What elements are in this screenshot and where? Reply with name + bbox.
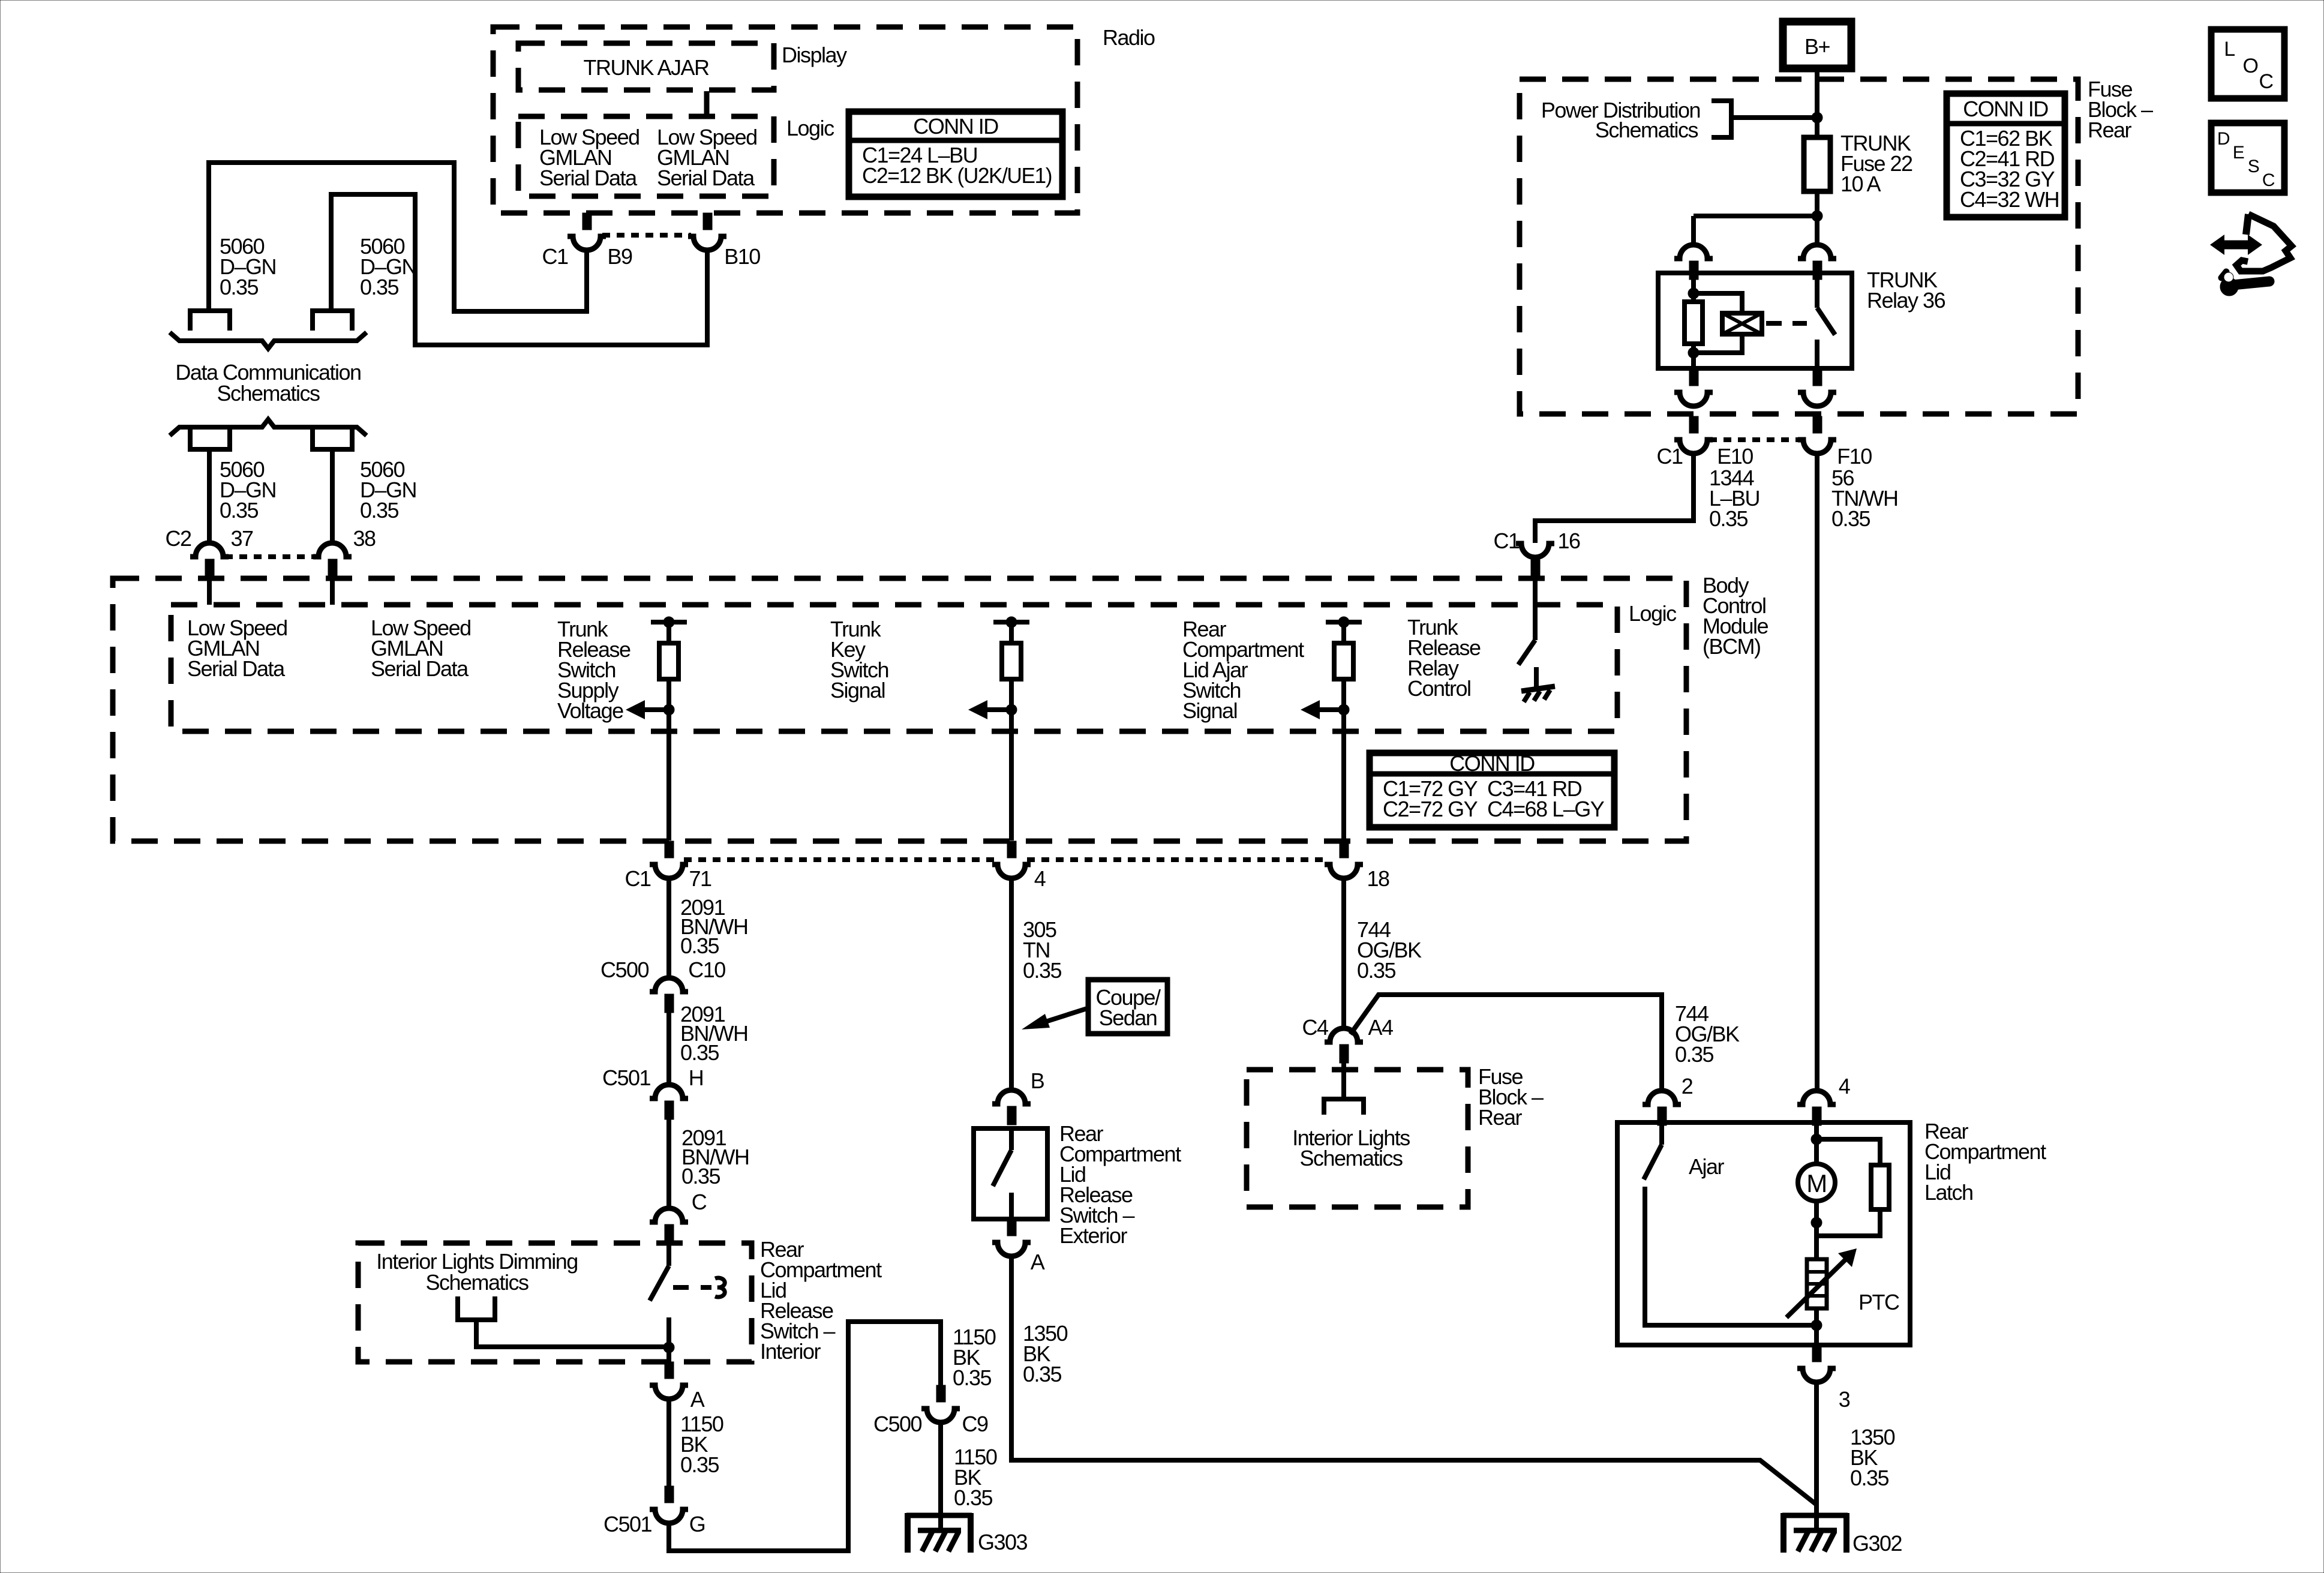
svg-text:0.35: 0.35	[1831, 506, 1870, 531]
conn id table (radio)	[849, 112, 1062, 197]
svg-text:S: S	[2248, 157, 2259, 176]
wire lower-left ref to C2/37	[207, 449, 212, 543]
svg-text:L: L	[2224, 38, 2235, 61]
svg-text:C: C	[2262, 170, 2275, 190]
svg-text:71: 71	[689, 866, 711, 891]
switch blade (BCM relay control)	[1518, 640, 1535, 665]
svg-text:Schematics: Schematics	[1595, 118, 1698, 142]
ajar switch in latch	[1659, 1122, 1664, 1145]
svg-text:Exterior: Exterior	[1059, 1223, 1128, 1248]
wire G to C500-C9	[669, 1322, 941, 1551]
svg-text:TRUNK AJAR: TRUNK AJAR	[583, 55, 709, 80]
connector C1-71 (BCM bottom)	[665, 841, 674, 858]
svg-text:C1: C1	[624, 866, 650, 891]
svg-text:G302: G302	[1852, 1531, 1902, 1556]
radio box	[493, 27, 1077, 213]
wire 37 into BCM	[207, 578, 212, 605]
svg-text:0.35: 0.35	[360, 498, 399, 523]
conn id table (fuse block)	[1947, 94, 2065, 217]
svg-text:Display: Display	[782, 43, 847, 67]
svg-text:Serial Data: Serial Data	[539, 166, 638, 190]
svg-text:Ajar: Ajar	[1689, 1154, 1725, 1179]
svg-text:Control: Control	[1407, 676, 1471, 701]
svg-text:B+: B+	[1804, 34, 1830, 59]
svg-text:Radio: Radio	[1103, 25, 1155, 50]
svg-text:0.35: 0.35	[680, 1040, 719, 1065]
off-page ref (lower right)	[313, 430, 352, 449]
svg-text:C2=72 GY C4=68 L–GY: C2=72 GY C4=68 L–GY	[1383, 797, 1605, 821]
svg-text:4: 4	[1034, 866, 1046, 891]
connector 3 (latch)	[1812, 1345, 1821, 1362]
connector C4-A4	[1325, 1028, 1363, 1042]
connector C500-C10	[650, 978, 688, 992]
wire 2091 BN/WH segment 1	[666, 879, 671, 978]
connector C1-B9 (radio)	[582, 213, 591, 230]
wire 744 OG/BK	[1341, 879, 1346, 1028]
connector 4 (latch)	[1797, 1091, 1836, 1104]
svg-text:Relay 36: Relay 36	[1867, 288, 1945, 313]
svg-text:16: 16	[1557, 529, 1580, 553]
connector 38 (BCM)	[313, 543, 352, 557]
branch to latch pin 2	[1350, 995, 1662, 1091]
connector 4 (BCM bottom)	[1007, 841, 1016, 858]
svg-text:2: 2	[1682, 1074, 1693, 1098]
wire fuse to relay	[1815, 191, 1819, 245]
wire lower-right ref to 38	[330, 449, 335, 543]
svg-text:C9: C9	[962, 1412, 987, 1436]
svg-text:0.35: 0.35	[220, 275, 259, 299]
wire 1350 BK to G302	[1011, 1257, 1816, 1505]
connector 2 (latch)	[1643, 1091, 1681, 1104]
relay TRUNK Relay 36	[1658, 273, 1852, 368]
conn id table (BCM)	[1370, 753, 1614, 827]
relay bottom pins	[1689, 368, 1698, 386]
wire display-logic link	[704, 91, 710, 115]
connector A (interior switch)	[665, 1362, 674, 1379]
ground G302	[1782, 1513, 1848, 1518]
DESC icon	[2211, 123, 2284, 193]
wire 1350 BK to G302	[1814, 1383, 1819, 1531]
svg-text:D: D	[2217, 129, 2230, 149]
svg-text:C4: C4	[1302, 1015, 1328, 1040]
fuse block rear box (top)	[1520, 79, 2078, 414]
logic box (radio)	[518, 116, 774, 196]
svg-text:B9: B9	[607, 244, 632, 269]
dotted connector row 37-38	[225, 554, 317, 559]
svg-text:C501: C501	[602, 1065, 651, 1090]
svg-text:0.35: 0.35	[1357, 958, 1396, 983]
fuse block rear box (lower)	[1247, 1070, 1468, 1207]
svg-text:C: C	[2259, 70, 2273, 93]
svg-text:Rear: Rear	[2088, 118, 2132, 142]
svg-text:0.35: 0.35	[680, 933, 719, 958]
wire dimming to switch	[476, 1320, 669, 1347]
svg-text:Schematics: Schematics	[425, 1270, 529, 1295]
resistor + node: Rear Compartment Lid Ajar Switch Signal	[1326, 620, 1362, 625]
wire 38 into BCM	[330, 578, 335, 605]
svg-text:Serial Data: Serial Data	[657, 166, 755, 190]
motor shunt resistor	[1816, 1139, 1880, 1165]
momentary contact dashes	[673, 1285, 711, 1290]
svg-text:G: G	[689, 1512, 705, 1536]
svg-text:Signal: Signal	[830, 678, 885, 703]
svg-text:Rear: Rear	[1478, 1105, 1523, 1130]
ground G303	[906, 1513, 972, 1518]
svg-text:PTC: PTC	[1858, 1290, 1899, 1314]
svg-text:10 A: 10 A	[1840, 172, 1881, 196]
svg-text:0.35: 0.35	[1023, 958, 1062, 983]
svg-text:B: B	[1031, 1068, 1044, 1093]
svg-text:0.35: 0.35	[1709, 506, 1748, 531]
svg-text:A4: A4	[1368, 1015, 1393, 1040]
svg-text:M: M	[1806, 1169, 1827, 1197]
connector C501-G	[665, 1486, 674, 1503]
svg-text:C10: C10	[688, 957, 725, 982]
wire B+ to fuse	[1815, 68, 1819, 137]
resistor + node: Trunk Key Switch Signal	[993, 620, 1029, 625]
svg-text:3: 3	[1839, 1387, 1850, 1412]
logic box (BCM)	[171, 605, 1617, 731]
connector relay pin F (top right)	[1798, 245, 1836, 259]
connector row C1-E10 F10	[1689, 416, 1698, 433]
svg-text:Latch: Latch	[1924, 1180, 1973, 1205]
svg-text:18: 18	[1367, 866, 1389, 891]
fuse TRUNK Fuse 22 10A	[1804, 137, 1830, 191]
svg-text:Serial Data: Serial Data	[187, 656, 286, 681]
svg-text:E: E	[2233, 143, 2244, 163]
svg-text:E10: E10	[1717, 444, 1753, 469]
svg-text:O: O	[2243, 55, 2258, 77]
svg-text:37: 37	[230, 526, 253, 551]
wire E10 to C1-16	[1535, 454, 1694, 543]
connector C500-C9	[936, 1385, 945, 1402]
svg-text:C500: C500	[873, 1412, 922, 1436]
svg-text:0.35: 0.35	[680, 1452, 719, 1477]
svg-text:CONN ID: CONN ID	[1963, 97, 2048, 121]
power distribution bracket	[1712, 101, 1731, 137]
off-page ref (upper left)	[190, 311, 230, 331]
dotted connector row B9-B10	[602, 233, 691, 238]
svg-text:0.35: 0.35	[1850, 1466, 1889, 1490]
LOC icon	[2211, 29, 2284, 98]
svg-text:C501: C501	[603, 1512, 652, 1536]
wire C9 to G303	[938, 1422, 943, 1531]
svg-text:Logic: Logic	[1629, 601, 1677, 626]
exterior switch box	[974, 1128, 1047, 1219]
relay dashed link	[1766, 321, 1807, 326]
wire 2091 BN/WH segment 2	[666, 1013, 671, 1085]
resistor + node: Trunk Release Switch Supply Voltage	[651, 620, 687, 625]
svg-text:Schematics: Schematics	[1299, 1146, 1403, 1170]
svg-text:0.35: 0.35	[681, 1164, 720, 1188]
coupe/sedan callout	[1088, 980, 1167, 1034]
relay switch	[1815, 273, 1819, 308]
wrench icon	[2220, 278, 2238, 296]
brace lower	[170, 419, 367, 436]
svg-text:Signal: Signal	[1182, 698, 1237, 723]
svg-text:0.35: 0.35	[220, 498, 259, 523]
interior switch wire + blade	[666, 1243, 671, 1266]
connector C (interior switch)	[650, 1208, 688, 1222]
svg-text:Schematics: Schematics	[217, 381, 320, 406]
svg-text:C1: C1	[542, 244, 568, 269]
interior switch lower terminal	[666, 1317, 671, 1363]
svg-text:CONN ID: CONN ID	[1449, 751, 1535, 776]
svg-text:C1: C1	[1493, 529, 1519, 553]
svg-text:H: H	[689, 1065, 704, 1090]
ground (BCM internal)	[1534, 667, 1539, 688]
svg-text:0.35: 0.35	[954, 1485, 993, 1510]
PTC	[1807, 1259, 1827, 1308]
svg-text:0.35: 0.35	[360, 275, 399, 299]
svg-text:0.35: 0.35	[1023, 1362, 1062, 1386]
relay coil	[1694, 293, 1742, 313]
svg-text:CONN ID: CONN ID	[913, 114, 998, 139]
brace upper	[170, 332, 367, 349]
svg-text:C500: C500	[600, 957, 649, 982]
interior lights dimming box	[358, 1243, 752, 1362]
svg-text:Interior: Interior	[760, 1339, 821, 1364]
svg-text:C1: C1	[1656, 444, 1682, 469]
battery feed B+	[1783, 22, 1851, 68]
svg-text:0.35: 0.35	[1675, 1042, 1714, 1067]
svg-text:A: A	[690, 1387, 705, 1412]
latch box	[1617, 1122, 1910, 1345]
wire B9 to data-comm ref	[209, 163, 587, 311]
off-page ref (interior lights schematics)	[1324, 1099, 1364, 1115]
connector relay pin E (top left)	[1674, 245, 1713, 259]
connector 18 (BCM bottom)	[1340, 841, 1349, 858]
wire 1150 BK segment	[666, 1400, 671, 1486]
svg-text:4: 4	[1839, 1074, 1850, 1098]
svg-text:(BCM): (BCM)	[1703, 634, 1760, 659]
svg-text:C4=32 WH: C4=32 WH	[1960, 187, 2059, 212]
svg-text:C: C	[692, 1190, 707, 1214]
off-page ref (dimming)	[458, 1296, 495, 1320]
svg-text:Sedan: Sedan	[1099, 1005, 1157, 1030]
display box	[518, 43, 774, 90]
connector A (exterior switch)	[1007, 1219, 1016, 1236]
svg-text:0.35: 0.35	[953, 1365, 992, 1390]
wire B10 to data-comm ref	[331, 194, 707, 345]
wire 2091 BN/WH segment 3	[666, 1119, 671, 1208]
connector C501-H	[650, 1085, 688, 1098]
svg-text:Serial Data: Serial Data	[371, 656, 469, 681]
svg-text:C2=12 BK (U2K/UE1): C2=12 BK (U2K/UE1)	[862, 163, 1052, 188]
off-page ref (lower left)	[190, 430, 230, 449]
svg-text:Voltage: Voltage	[557, 698, 623, 723]
wire 305 TN	[1009, 879, 1014, 1090]
wire A4 into fuse block	[1341, 1063, 1346, 1099]
svg-text:Logic: Logic	[786, 116, 834, 140]
svg-text:G303: G303	[978, 1530, 1028, 1554]
switch blade (exterior)	[993, 1150, 1011, 1186]
svg-text:C2: C2	[165, 526, 191, 551]
svg-text:38: 38	[353, 526, 376, 551]
BCM outer box	[113, 578, 1686, 841]
relay coil resistor	[1691, 273, 1696, 302]
connector C1-16 (BCM top)	[1516, 544, 1554, 557]
connector B (exterior switch)	[992, 1090, 1031, 1104]
navigation icon	[2246, 214, 2248, 235]
connector C2-37 (BCM)	[190, 543, 229, 557]
svg-text:F10: F10	[1837, 444, 1872, 469]
wire F10 to latch pin 4	[1815, 454, 1819, 1091]
off-page ref (upper right)	[313, 311, 352, 331]
motor M	[1814, 1122, 1819, 1164]
svg-text:B10: B10	[724, 244, 760, 269]
connector B10 (radio)	[703, 213, 712, 230]
dotted connector row C1 bottom	[684, 857, 996, 862]
svg-text:A: A	[1031, 1250, 1045, 1274]
